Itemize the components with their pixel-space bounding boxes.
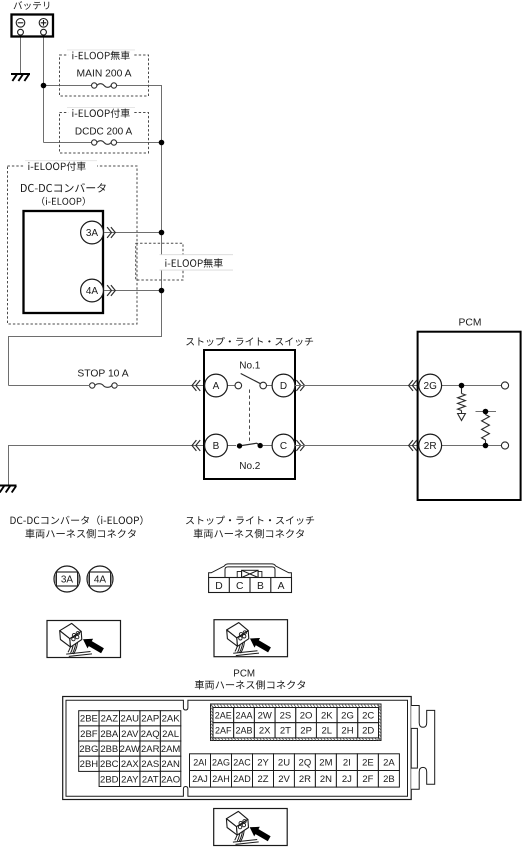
svg-text:2H: 2H [341,726,353,737]
svg-text:No.2: No.2 [239,461,261,472]
svg-text:4A: 4A [86,286,99,297]
i-ELOOP not-equipped dashed box (bypass) [136,243,183,280]
junction battery/MAIN [41,83,47,89]
battery [12,15,54,37]
connector terminal 3A face [54,566,80,592]
svg-text:2A: 2A [383,757,395,768]
fuse box i-ELOOP equipped (DCDC) [60,113,149,154]
chevrons switch C [296,440,300,451]
svg-text:2R: 2R [299,774,311,785]
svg-text:2BF: 2BF [80,729,98,740]
PCM connector outline [63,697,412,800]
PCM internal 2G wire [442,385,502,387]
svg-text:3A: 3A [61,575,74,586]
svg-text:4A: 4A [94,575,107,586]
svg-text:No.1: No.1 [239,361,261,372]
pin 2R output circle [501,442,508,449]
svg-text:2AX: 2AX [121,759,140,770]
wire DCDC fuse feed [44,142,162,144]
open arrow (to other circuit) [458,414,466,421]
junction stub/R2 [483,409,489,415]
svg-text:2X: 2X [259,726,271,737]
stop light switch SW1 [204,350,295,479]
svg-text:2AL: 2AL [162,729,179,740]
junction bus/DCDC [159,140,165,146]
wire 4A to bus [103,290,161,292]
svg-text:2AN: 2AN [161,759,180,770]
connector chevrons 3A [107,227,111,238]
stop light switch label [186,337,313,346]
chevrons switch A [196,380,200,391]
svg-text:A: A [278,581,285,592]
svg-text:2AB: 2AB [235,726,252,736]
svg-text:2L: 2L [322,726,333,737]
svg-text:2AE: 2AE [215,710,232,720]
svg-text:2AJ: 2AJ [192,774,208,784]
switch No.2 contact [227,445,236,447]
svg-text:2M: 2M [319,757,332,768]
svg-text:2S: 2S [280,710,292,721]
svg-text:2AH: 2AH [212,774,230,784]
DC-DC converter (i-ELOOP) U1 [24,211,104,313]
svg-text:C: C [280,441,287,452]
svg-text:2BC: 2BC [100,759,119,770]
fuse STOP 10 A [90,383,95,388]
chevrons switch D [296,380,300,391]
harness icon stop light switch connector [214,620,288,657]
svg-text:2AP: 2AP [141,714,159,725]
svg-text:2AF: 2AF [215,726,232,736]
junction 2R/R2 [483,443,489,449]
svg-text:STOP 10 A: STOP 10 A [77,368,128,379]
fuse box i-ELOOP no-eloop (MAIN) [60,55,149,96]
svg-text:D: D [280,381,287,392]
svg-text:2BH: 2BH [80,759,99,770]
ground (battery) [11,74,30,81]
svg-text:2V: 2V [278,774,290,785]
svg-text:2U: 2U [278,757,290,768]
svg-text:2E: 2E [362,757,374,768]
terminal A [205,374,228,397]
stub to other circuit [476,411,497,413]
svg-text:B: B [213,441,220,452]
junction bus/3A [159,230,165,236]
svg-text:2G: 2G [341,710,354,721]
pin 2G output circle [501,382,508,389]
svg-text:2AQ: 2AQ [141,729,160,740]
wire battery negative to ground [20,35,22,73]
svg-text:2AZ: 2AZ [101,714,119,725]
chevrons PCM 2R [412,440,416,451]
connector chevrons 4A [107,285,111,296]
PCM pin table upper-right (hatched frame) [211,704,382,741]
svg-text:2O: 2O [300,710,313,721]
svg-text:2K: 2K [321,710,333,721]
svg-text:2AI: 2AI [193,757,207,767]
svg-text:2BD: 2BD [100,774,119,785]
wire ground to switch B [9,446,205,486]
chevrons switch B [196,440,200,451]
svg-text:C: C [236,581,244,592]
svg-text:2AM: 2AM [161,744,181,755]
svg-text:2R: 2R [424,441,437,452]
svg-text:2AG: 2AG [212,757,230,767]
wire A-D internal [227,385,235,387]
svg-text:2AW: 2AW [120,744,140,755]
svg-text:2N: 2N [320,774,332,785]
terminal 4A [81,279,104,302]
svg-text:PCM: PCM [233,669,255,680]
svg-text:2AU: 2AU [121,714,140,725]
svg-text:2BG: 2BG [79,744,98,755]
PCM box [418,332,521,500]
connector terminal 4A face [87,566,113,592]
battery label [14,1,50,10]
svg-text:2C: 2C [362,710,374,721]
svg-text:2BB: 2BB [100,744,118,755]
resistor R2 [485,412,487,446]
wire C to PCM 2R [295,445,418,447]
DC-DC converter connector caption [11,515,143,525]
terminal 3A [81,221,104,244]
svg-text:2F: 2F [362,774,373,785]
i-ELOOP not-equipped label [160,255,234,270]
svg-text:2AV: 2AV [121,729,139,740]
terminal 2G [419,374,442,397]
pull-down resistor R1 [461,386,463,414]
svg-text:2B: 2B [383,774,395,785]
svg-text:2AK: 2AK [162,714,181,725]
svg-text:2I: 2I [343,757,351,768]
svg-text:2BE: 2BE [80,714,98,725]
svg-text:2Y: 2Y [257,757,269,768]
svg-text:2Z: 2Z [257,774,268,785]
stop light switch connector caption [186,516,314,525]
svg-text:2D: 2D [362,726,374,737]
svg-text:2AC: 2AC [233,757,251,767]
switch No.1 contact [235,382,242,389]
terminal D [272,374,295,397]
svg-text:PCM: PCM [459,318,482,329]
ground (switch B) [0,486,16,493]
svg-text:2G: 2G [424,381,438,392]
svg-text:2W: 2W [258,710,272,721]
i-ELOOP equipped dashed box [8,166,138,324]
stop light switch connector face [209,564,292,578]
chevrons PCM 2G [412,380,416,391]
svg-text:2AT: 2AT [142,774,159,785]
PCM pin table lower-right [190,754,211,771]
svg-text:D: D [215,581,222,592]
wire STOP fuse to switch A [9,385,205,387]
svg-text:2AD: 2AD [233,774,251,784]
terminal C [272,434,295,457]
svg-text:2T: 2T [280,726,291,737]
junction 2G/resistor [459,383,465,389]
svg-text:MAIN 200 A: MAIN 200 A [77,69,132,80]
svg-text:2AS: 2AS [141,759,159,770]
svg-text:B: B [257,581,264,592]
svg-text:DCDC 200 A: DCDC 200 A [75,126,133,137]
svg-text:2BA: 2BA [100,729,119,740]
wire MAIN fuse feed [9,86,162,386]
svg-text:A: A [213,381,220,392]
svg-text:2AA: 2AA [235,710,252,720]
svg-text:2P: 2P [300,726,312,737]
junction bus/4A [159,288,165,294]
svg-text:2Q: 2Q [299,757,312,768]
PCM connector bracket [411,706,435,790]
svg-text:2AY: 2AY [121,774,139,785]
svg-text:2AR: 2AR [141,744,160,755]
harness icon DC-DC connector [47,621,121,658]
terminal 2R [419,434,442,457]
svg-text:2AO: 2AO [161,774,180,785]
svg-text:2J: 2J [342,774,352,785]
svg-text:3A: 3A [86,228,99,239]
fuse DCDC 200 A [92,140,97,145]
wire D to PCM 2G [295,385,418,387]
wire 3A to bus [103,232,161,234]
switch link dashed [249,390,251,442]
terminal B [205,434,228,457]
DC-DC converter label [21,183,106,192]
PCM internal 2R wire [442,445,502,447]
PCM pin table left [79,711,99,726]
harness icon PCM connector [214,809,288,846]
fuse MAIN 200 A [92,83,97,88]
wire battery positive down [43,35,45,143]
